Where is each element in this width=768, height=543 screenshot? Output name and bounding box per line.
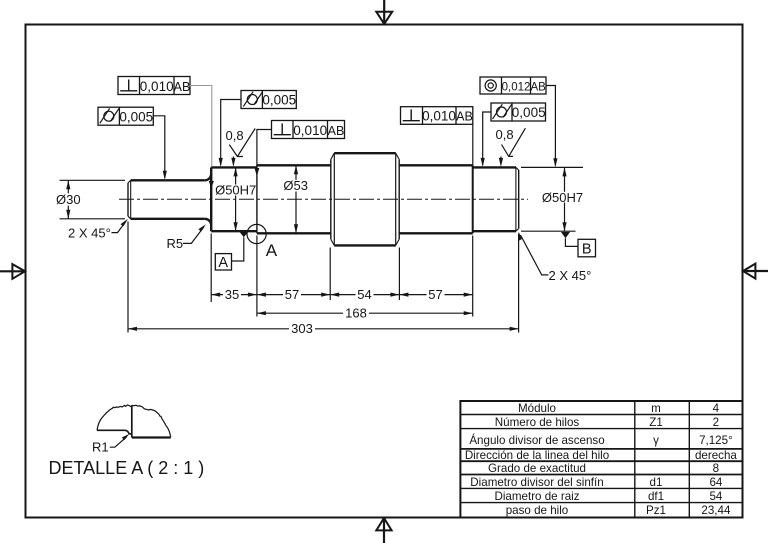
dimension 168 <box>257 306 473 321</box>
svg-text:df1: df1 <box>648 490 664 503</box>
worm left tangent line <box>333 153 335 245</box>
dimension phi30 <box>56 180 125 219</box>
detail view A <box>49 405 205 478</box>
surface finish 0,8 right <box>496 127 526 167</box>
svg-text:303: 303 <box>291 321 313 336</box>
svg-text:B: B <box>582 242 592 258</box>
chamfer note left 2X45 <box>68 219 128 241</box>
centering mark bottom <box>376 518 391 543</box>
svg-text:57: 57 <box>428 287 442 302</box>
dimension phi50H7 right <box>521 167 583 231</box>
svg-text:Ø53: Ø53 <box>283 178 308 193</box>
phi50 right top <box>473 166 516 168</box>
phi53 right top <box>399 164 472 166</box>
datum A <box>215 231 248 271</box>
svg-text:m: m <box>651 402 661 415</box>
svg-text:Módulo: Módulo <box>518 402 556 415</box>
datum B <box>561 232 596 258</box>
svg-text:γ: γ <box>653 434 659 447</box>
svg-text:DETALLE A ( 2 : 1 ): DETALLE A ( 2 : 1 ) <box>49 458 205 478</box>
tolerance frame F7 perpendicularity 0,010 AB right <box>401 107 473 165</box>
svg-text:AB: AB <box>456 110 473 124</box>
svg-text:AB: AB <box>531 82 547 94</box>
centering mark right <box>743 264 768 279</box>
svg-text:54: 54 <box>709 490 722 503</box>
svg-text:0,005: 0,005 <box>262 93 296 108</box>
svg-text:35: 35 <box>225 287 239 302</box>
svg-text:168: 168 <box>345 306 367 321</box>
svg-text:Número de hilos: Número de hilos <box>495 416 580 429</box>
svg-text:Diametro de raiz: Diametro de raiz <box>494 490 579 503</box>
tolerance frame F5 concentricity 0,012 AB <box>480 77 558 167</box>
svg-text:2 X 45°: 2 X 45° <box>68 226 111 241</box>
svg-text:d1: d1 <box>650 476 663 489</box>
step face phi53 to phi50 <box>472 165 474 233</box>
svg-text:A: A <box>218 255 228 271</box>
phi50 left top <box>211 166 257 168</box>
svg-text:0,8: 0,8 <box>496 127 514 142</box>
shoulder face <box>210 167 212 231</box>
fillet R5 top <box>205 174 211 180</box>
shaft outline <box>128 153 519 245</box>
svg-text:AB: AB <box>174 80 191 94</box>
break outline <box>97 405 171 438</box>
tolerance frame F1 perpendicularity 0,010 AB <box>118 77 214 189</box>
phi53 left top <box>257 164 331 166</box>
svg-text:57: 57 <box>285 287 299 302</box>
worm top <box>334 152 396 154</box>
svg-text:Ø50H7: Ø50H7 <box>542 190 583 205</box>
svg-text:Ø30: Ø30 <box>56 192 81 207</box>
left end face <box>127 183 129 216</box>
tolerance frame F3 cylindricity 0,005 <box>219 91 297 167</box>
centering mark top <box>376 0 392 25</box>
svg-text:54: 54 <box>357 287 371 302</box>
dimension 54 <box>330 287 399 302</box>
extension lines bottom dims <box>128 222 519 333</box>
dimension phi50H7 left <box>215 167 256 231</box>
dimension 303 <box>128 321 519 336</box>
worm right chamfer diagonals <box>396 153 400 159</box>
left chamfer edge line <box>130 180 132 219</box>
svg-text:0,010: 0,010 <box>422 109 456 124</box>
svg-text:Dirección de la linea del hilo: Dirección de la linea del hilo <box>465 449 609 462</box>
groove face <box>256 165 258 233</box>
phi30 section bottom <box>131 218 205 220</box>
phi50 surface line <box>97 429 125 431</box>
svg-text:Diametro divisor del sinfín: Diametro divisor del sinfín <box>470 476 603 489</box>
phi50 left bottom <box>211 230 257 232</box>
centerline <box>119 198 528 200</box>
phi53 left bottom <box>257 232 331 234</box>
tolerance frame F6 cylindricity 0,005 right <box>481 103 546 167</box>
dimension 57 first <box>257 287 330 302</box>
svg-text:paso de hilo: paso de hilo <box>506 504 569 517</box>
shoulder face line <box>131 406 133 438</box>
tolerance frame F4 perpendicularity 0,010 AB <box>255 121 345 177</box>
worm bottom <box>334 244 396 246</box>
svg-text:64: 64 <box>709 476 722 489</box>
chamfer note right 2X45 <box>519 232 592 283</box>
right chamfer edge line <box>515 167 517 231</box>
worm left chamfer diagonals <box>331 153 334 159</box>
svg-text:8: 8 <box>713 462 719 475</box>
tolerance frame F2 cylindricity 0,005 <box>98 107 167 180</box>
fillet note R5 <box>167 224 206 251</box>
svg-text:2: 2 <box>713 416 719 429</box>
svg-text:R5: R5 <box>167 236 184 251</box>
phi53 surface line <box>132 436 171 438</box>
right chamfer diagonals <box>516 167 519 170</box>
svg-text:0,005: 0,005 <box>119 109 153 124</box>
svg-text:0,010: 0,010 <box>140 79 174 94</box>
svg-text:Pz1: Pz1 <box>646 504 666 517</box>
svg-text:AB: AB <box>328 124 345 138</box>
right end face <box>518 170 520 229</box>
svg-text:0,8: 0,8 <box>226 128 244 143</box>
dimension 57 second <box>399 287 472 302</box>
worm right tangent line <box>395 153 397 245</box>
svg-text:7,125°: 7,125° <box>699 434 733 447</box>
svg-text:4: 4 <box>713 402 720 415</box>
dimension phi53 <box>283 165 308 233</box>
svg-text:Ø50H7: Ø50H7 <box>215 183 256 198</box>
svg-text:Grado de exactitud: Grado de exactitud <box>488 462 586 475</box>
fillet R5 bottom <box>205 219 211 225</box>
parameter table <box>460 401 742 518</box>
svg-text:23,44: 23,44 <box>701 504 731 517</box>
groove radius R1 <box>125 430 132 434</box>
left chamfer diagonals <box>128 180 131 183</box>
svg-text:0,010: 0,010 <box>293 123 327 138</box>
centering mark left <box>0 264 26 279</box>
dimension 35 <box>211 287 257 302</box>
svg-text:Z1: Z1 <box>649 416 663 429</box>
svg-text:2 X 45°: 2 X 45° <box>549 268 592 283</box>
worm right end face <box>398 159 400 239</box>
svg-text:derecha: derecha <box>695 449 737 462</box>
worm left end face <box>330 159 332 239</box>
phi30 section top <box>131 179 205 181</box>
svg-text:Ángulo divisor de ascenso: Ángulo divisor de ascenso <box>469 434 604 447</box>
detail circle A <box>247 224 278 260</box>
svg-text:R1: R1 <box>92 440 109 455</box>
phi50 right bottom <box>473 230 516 232</box>
svg-text:0,012: 0,012 <box>502 81 531 93</box>
svg-text:A: A <box>266 241 278 260</box>
phi53 right bottom <box>399 232 472 234</box>
surface finish 0,8 left <box>226 128 256 167</box>
svg-text:0,005: 0,005 <box>512 105 546 120</box>
